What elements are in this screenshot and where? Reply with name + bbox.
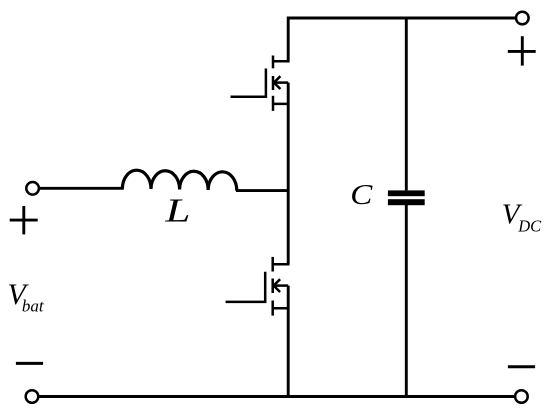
svg-text:bat: bat [22,296,45,315]
svg-text:C: C [350,179,373,210]
svg-text:DC: DC [517,216,542,235]
svg-text:L: L [164,191,190,229]
